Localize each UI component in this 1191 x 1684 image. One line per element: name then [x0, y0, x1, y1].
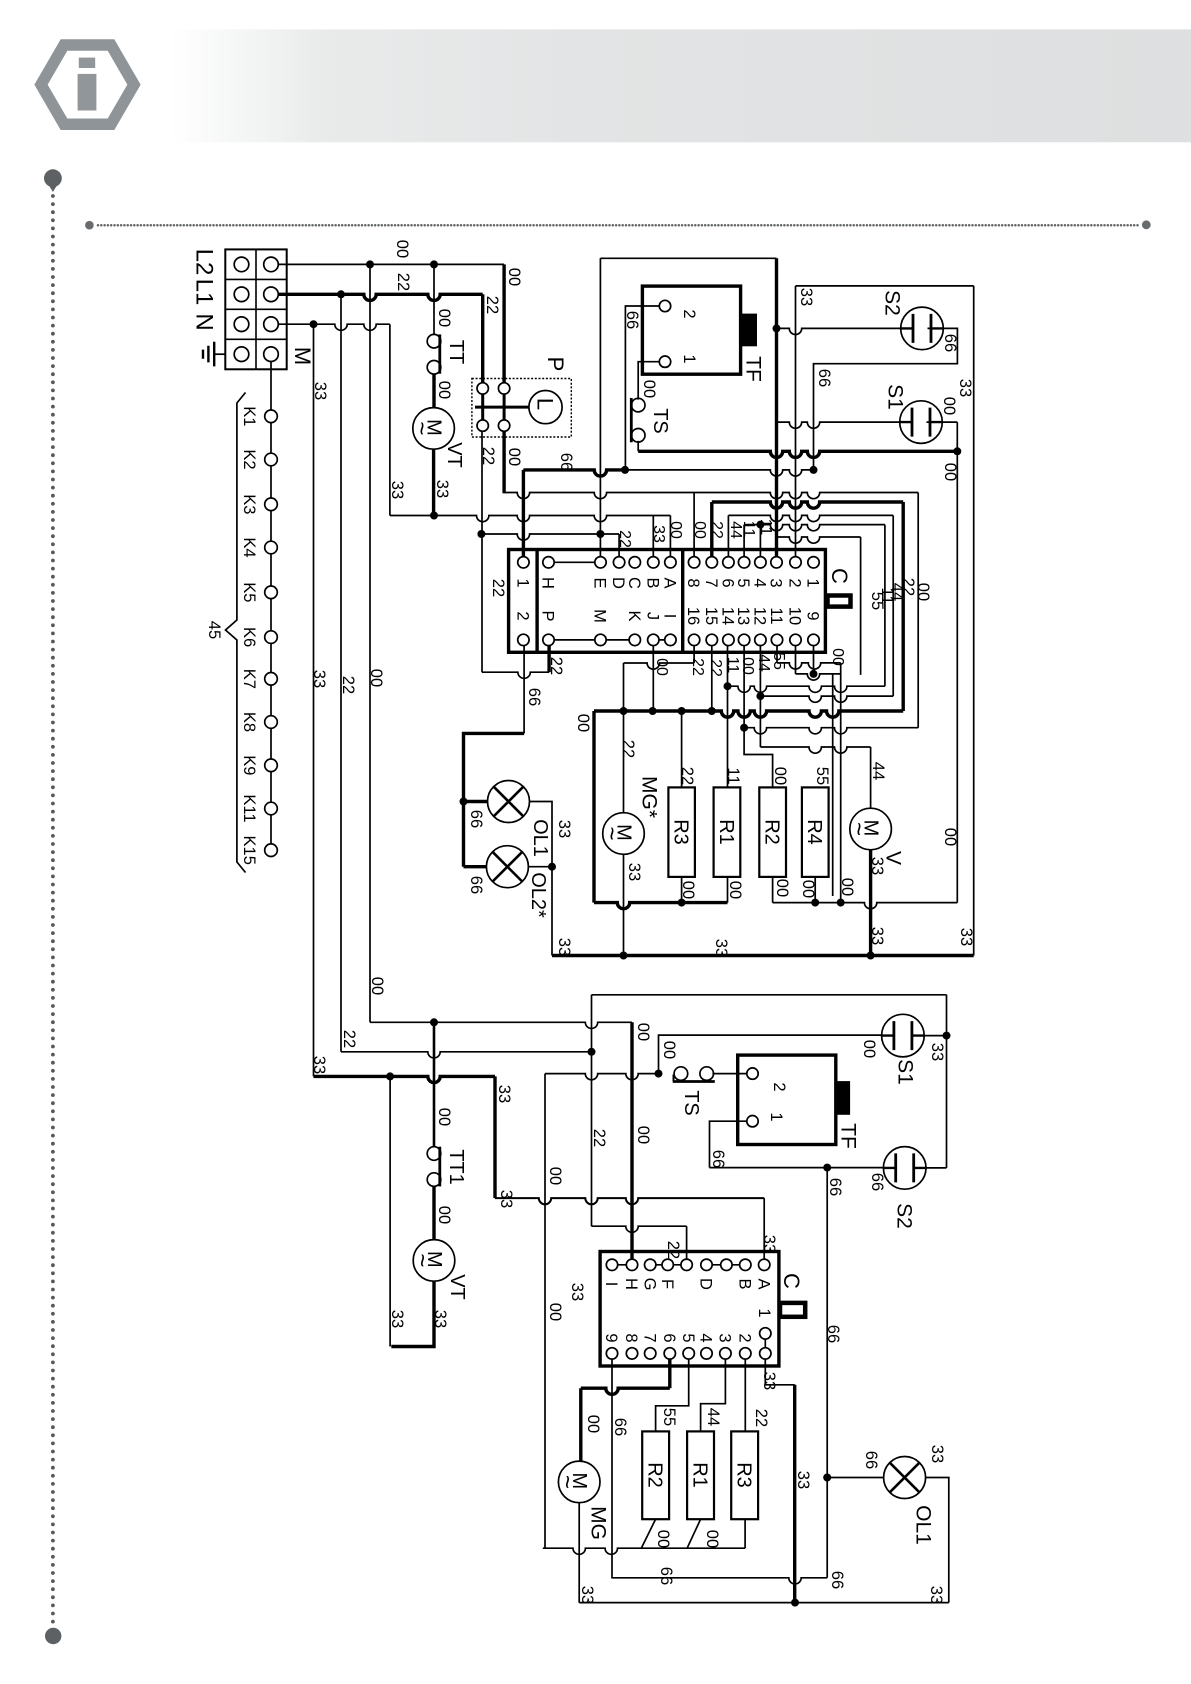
svg-text:K3: K3 — [240, 494, 258, 514]
svg-text:M: M — [591, 609, 609, 623]
svg-text:R3: R3 — [669, 819, 691, 845]
svg-text:44: 44 — [869, 762, 887, 780]
svg-text:12: 12 — [751, 607, 769, 625]
svg-text:00: 00 — [653, 658, 670, 676]
svg-text:33: 33 — [957, 928, 975, 946]
svg-text:L: L — [533, 398, 558, 410]
svg-text:11: 11 — [767, 607, 785, 624]
svg-text:55: 55 — [660, 1408, 678, 1426]
svg-text:4: 4 — [697, 1333, 715, 1342]
svg-text:33: 33 — [310, 670, 328, 688]
svg-text:00: 00 — [941, 828, 959, 846]
svg-text:TT1: TT1 — [445, 1149, 467, 1185]
svg-text:44: 44 — [704, 1408, 722, 1426]
svg-text:6: 6 — [660, 1333, 678, 1342]
svg-text:R1: R1 — [688, 1462, 710, 1488]
svg-text:22: 22 — [678, 767, 696, 785]
svg-text:15: 15 — [702, 607, 720, 625]
svg-text:S2: S2 — [880, 290, 903, 316]
svg-text:00: 00 — [838, 878, 856, 896]
svg-text:C: C — [827, 568, 852, 584]
svg-text:1: 1 — [804, 578, 822, 587]
svg-text:33: 33 — [794, 1471, 812, 1489]
svg-text:R3: R3 — [732, 1462, 754, 1488]
svg-text:66: 66 — [826, 1178, 844, 1196]
svg-text:A: A — [754, 1278, 772, 1289]
svg-text:11: 11 — [740, 521, 757, 538]
svg-text:~: ~ — [408, 1253, 435, 1267]
svg-text:~: ~ — [408, 421, 435, 435]
svg-text:G: G — [640, 1278, 658, 1291]
svg-text:K2: K2 — [240, 449, 258, 469]
svg-text:I: I — [602, 1282, 620, 1287]
svg-text:7: 7 — [702, 578, 720, 587]
svg-text:00: 00 — [829, 648, 846, 666]
svg-text:00: 00 — [435, 1108, 453, 1126]
svg-text:K5: K5 — [240, 582, 258, 602]
svg-text:00: 00 — [654, 1530, 672, 1548]
svg-text:N: N — [190, 313, 217, 330]
svg-text:33: 33 — [928, 1043, 946, 1061]
svg-text:33: 33 — [650, 525, 667, 543]
svg-text:00: 00 — [667, 521, 684, 539]
svg-text:00: 00 — [393, 240, 411, 258]
svg-text:6: 6 — [719, 578, 737, 587]
svg-text:R2: R2 — [760, 819, 782, 845]
svg-text:MG: MG — [586, 1506, 609, 1540]
svg-text:E: E — [591, 577, 609, 588]
svg-text:00: 00 — [703, 1530, 721, 1548]
svg-text:P: P — [543, 357, 568, 372]
svg-text:33: 33 — [712, 939, 730, 957]
svg-text:K11: K11 — [240, 794, 258, 822]
svg-text:22: 22 — [590, 1129, 608, 1147]
svg-text:R2: R2 — [643, 1462, 665, 1488]
svg-text:33: 33 — [431, 1310, 449, 1328]
svg-text:22: 22 — [547, 657, 565, 675]
svg-text:B: B — [643, 577, 661, 588]
svg-text:55: 55 — [770, 652, 787, 670]
svg-text:45: 45 — [205, 621, 223, 639]
svg-text:66: 66 — [557, 453, 575, 471]
svg-text:33: 33 — [568, 1283, 586, 1301]
svg-text:4: 4 — [751, 578, 769, 587]
svg-text:66: 66 — [657, 1567, 675, 1585]
svg-text:00: 00 — [634, 1126, 652, 1144]
svg-text:00: 00 — [574, 714, 592, 732]
svg-text:00: 00 — [634, 1023, 652, 1041]
svg-text:33: 33 — [497, 1190, 515, 1208]
svg-text:22: 22 — [340, 1030, 358, 1048]
svg-text:66: 66 — [862, 1451, 880, 1469]
svg-text:TT: TT — [445, 340, 467, 364]
svg-text:55: 55 — [813, 767, 831, 785]
svg-text:8: 8 — [622, 1333, 640, 1342]
svg-text:B: B — [735, 1278, 753, 1289]
svg-text:66: 66 — [824, 1325, 842, 1343]
svg-text:22: 22 — [707, 659, 724, 677]
svg-text:S2: S2 — [892, 1203, 915, 1229]
svg-text:00: 00 — [726, 881, 744, 899]
svg-text:33: 33 — [311, 382, 329, 400]
svg-text:10: 10 — [786, 607, 804, 625]
svg-text:33: 33 — [555, 938, 573, 956]
svg-text:5: 5 — [679, 1333, 697, 1342]
svg-text:1: 1 — [680, 354, 698, 363]
svg-text:44: 44 — [755, 654, 772, 672]
svg-text:33: 33 — [388, 481, 406, 499]
svg-text:00: 00 — [435, 381, 453, 399]
svg-text:33: 33 — [797, 288, 815, 306]
svg-text:22: 22 — [689, 658, 706, 676]
svg-text:2: 2 — [680, 309, 698, 318]
svg-text:K: K — [625, 610, 643, 621]
svg-text:M: M — [290, 347, 315, 365]
svg-text:33: 33 — [388, 1310, 406, 1328]
svg-text:00: 00 — [860, 1040, 878, 1058]
svg-text:00: 00 — [941, 463, 959, 481]
svg-text:22: 22 — [489, 579, 507, 597]
svg-text:L1: L1 — [190, 279, 217, 306]
svg-text:D: D — [697, 1278, 715, 1290]
svg-text:00: 00 — [771, 767, 789, 785]
svg-text:33: 33 — [928, 1445, 946, 1463]
svg-text:VT: VT — [443, 442, 465, 468]
svg-text:H: H — [622, 1278, 640, 1290]
svg-text:00: 00 — [505, 268, 523, 286]
svg-text:I: I — [661, 614, 679, 619]
svg-text:2: 2 — [514, 611, 532, 620]
svg-text:66: 66 — [611, 1418, 629, 1436]
svg-text:33: 33 — [625, 863, 643, 881]
svg-text:C: C — [625, 577, 643, 589]
svg-text:00: 00 — [660, 1041, 678, 1059]
svg-text:A: A — [661, 577, 679, 588]
svg-text:33: 33 — [310, 1056, 328, 1074]
svg-text:66: 66 — [623, 311, 641, 329]
svg-text:5: 5 — [734, 578, 752, 587]
svg-text:22: 22 — [752, 1409, 770, 1427]
svg-text:66: 66 — [467, 810, 485, 828]
svg-text:~: ~ — [554, 1475, 581, 1489]
svg-text:00: 00 — [505, 448, 523, 466]
svg-text:TF: TF — [741, 356, 764, 382]
svg-text:1: 1 — [755, 1308, 773, 1317]
svg-text:L2: L2 — [190, 249, 217, 276]
svg-text:TF: TF — [836, 1123, 859, 1149]
svg-text:00: 00 — [546, 1167, 564, 1185]
svg-text:00: 00 — [435, 1206, 453, 1224]
svg-text:OL2*: OL2* — [527, 872, 549, 918]
svg-text:2: 2 — [735, 1333, 753, 1342]
svg-text:66: 66 — [525, 688, 543, 706]
svg-text:00: 00 — [435, 309, 453, 327]
svg-text:K4: K4 — [240, 537, 258, 557]
svg-text:33: 33 — [760, 1372, 778, 1390]
svg-text:K6: K6 — [240, 627, 258, 647]
svg-text:C: C — [779, 1273, 804, 1289]
svg-text:22: 22 — [479, 447, 497, 465]
svg-text:33: 33 — [927, 1586, 945, 1604]
svg-text:VT: VT — [446, 1274, 468, 1300]
svg-text:1: 1 — [514, 578, 532, 587]
svg-text:K9: K9 — [240, 755, 258, 775]
svg-text:F: F — [658, 1279, 676, 1289]
svg-text:S1: S1 — [893, 1059, 916, 1085]
svg-text:33: 33 — [555, 820, 573, 838]
svg-text:3: 3 — [767, 578, 785, 587]
svg-text:TS: TS — [680, 1090, 702, 1116]
svg-text:14: 14 — [719, 607, 737, 625]
svg-text:33: 33 — [495, 1085, 513, 1103]
svg-text:66: 66 — [868, 1173, 886, 1191]
svg-text:00: 00 — [940, 397, 958, 415]
svg-text:33: 33 — [578, 1586, 596, 1604]
svg-text:9: 9 — [804, 611, 822, 620]
svg-text:00: 00 — [584, 1415, 602, 1433]
svg-text:MG*: MG* — [637, 776, 660, 818]
svg-text:TS: TS — [649, 408, 671, 434]
svg-text:00: 00 — [367, 669, 385, 687]
svg-text:33: 33 — [868, 927, 886, 945]
svg-text:66: 66 — [828, 1571, 846, 1589]
svg-text:22: 22 — [483, 296, 501, 314]
svg-text:00: 00 — [773, 879, 791, 897]
svg-text:00: 00 — [799, 880, 817, 898]
svg-text:2: 2 — [786, 578, 804, 587]
svg-text:R4: R4 — [803, 819, 825, 845]
svg-text:K8: K8 — [240, 712, 258, 732]
svg-text:R1: R1 — [715, 819, 737, 845]
svg-text:D: D — [609, 577, 627, 589]
svg-text:OL1: OL1 — [911, 1505, 934, 1545]
svg-text:00: 00 — [739, 657, 756, 675]
svg-text:66: 66 — [941, 334, 959, 352]
svg-text:22: 22 — [394, 273, 412, 291]
svg-text:1: 1 — [767, 1112, 785, 1121]
svg-text:3: 3 — [716, 1333, 734, 1342]
svg-text:13: 13 — [734, 607, 752, 625]
svg-text:7: 7 — [640, 1333, 658, 1342]
svg-text:8: 8 — [684, 578, 702, 587]
svg-text:00: 00 — [640, 380, 658, 398]
svg-text:~: ~ — [598, 826, 625, 840]
svg-text:55: 55 — [868, 592, 886, 610]
svg-text:S1: S1 — [883, 384, 906, 410]
svg-text:K1: K1 — [240, 406, 258, 426]
svg-text:00: 00 — [368, 977, 386, 995]
svg-text:33: 33 — [433, 480, 451, 498]
svg-text:P: P — [539, 610, 557, 621]
svg-text:66: 66 — [467, 876, 485, 894]
svg-text:~: ~ — [845, 822, 872, 836]
svg-text:K7: K7 — [240, 669, 258, 689]
svg-text:00: 00 — [546, 1303, 564, 1321]
svg-text:J: J — [643, 612, 661, 620]
svg-text:16: 16 — [684, 607, 702, 625]
svg-text:22: 22 — [619, 740, 637, 758]
svg-text:H: H — [539, 577, 557, 589]
svg-text:66: 66 — [709, 1150, 727, 1168]
svg-text:22: 22 — [616, 530, 633, 548]
svg-text:00: 00 — [679, 881, 697, 899]
svg-text:K15: K15 — [240, 836, 258, 865]
svg-text:22: 22 — [339, 676, 357, 694]
svg-text:33: 33 — [956, 379, 974, 397]
svg-text:66: 66 — [815, 369, 833, 387]
svg-text:2: 2 — [770, 1082, 788, 1091]
svg-text:9: 9 — [602, 1333, 620, 1342]
svg-text:OL1: OL1 — [529, 819, 551, 857]
